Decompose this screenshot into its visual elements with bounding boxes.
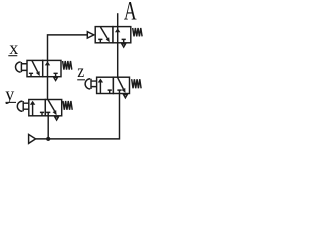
node junction dot — [46, 137, 50, 141]
valve A left box blocked port T — [98, 39, 102, 42]
valve z exhaust triangle — [124, 95, 128, 98]
valve x right box flow arrow — [47, 60, 49, 76]
label A — [124, 0, 137, 25]
valve z left box flow arrow — [99, 82, 101, 94]
valve A right box blocked port T — [122, 39, 126, 42]
valve x left box flow 2-3 diagonal — [32, 61, 38, 72]
wire y supply riser — [47, 116, 49, 139]
valve y left box blocked port T — [40, 112, 44, 115]
valve x push button — [16, 62, 21, 72]
valve x body boxes — [27, 60, 43, 76]
valve y exhaust triangle — [55, 117, 59, 120]
valve z return spring — [132, 79, 141, 88]
valve y left box flow arrow — [32, 104, 34, 116]
wire A output and supply column (A port 2 up, port 1 down to z port 2) — [117, 13, 119, 77]
svg-text:x: x — [9, 38, 18, 58]
valve A pilot actuator triangle — [87, 32, 94, 38]
valve z right box blocked port T — [117, 90, 121, 93]
valve y right box flow 2-3 diagonal — [48, 100, 55, 111]
valve y body boxes — [29, 100, 46, 116]
valve A exhaust triangle — [122, 44, 126, 47]
wire x output up to pilot of A, and x supply down from y output — [48, 35, 88, 100]
valve x exhaust triangle — [54, 77, 58, 80]
valve x left box blocked port T — [29, 73, 33, 76]
valve x return spring — [63, 61, 72, 70]
wire z supply from bus — [36, 94, 120, 139]
valve z body boxes — [97, 77, 114, 93]
valve x right box blocked port T — [54, 73, 58, 76]
label z — [77, 61, 84, 81]
valve A body boxes — [95, 27, 113, 43]
svg-text:y: y — [5, 84, 14, 104]
valve z right box flow 2-3 diagonal — [118, 77, 124, 89]
valve y push button — [17, 101, 22, 111]
valve z push button — [85, 79, 90, 89]
svg-text:z: z — [77, 61, 84, 81]
source triangle — [29, 134, 36, 143]
svg-text:A: A — [124, 0, 137, 25]
valve y return spring — [63, 101, 72, 110]
valve y right box blocked port T — [46, 112, 50, 115]
valve z left box blocked port T — [108, 90, 112, 93]
valve A return spring — [133, 28, 142, 36]
valve A left box flow 2-3 diagonal — [100, 27, 108, 40]
valve A right box flow arrow 1-2 — [117, 27, 119, 43]
